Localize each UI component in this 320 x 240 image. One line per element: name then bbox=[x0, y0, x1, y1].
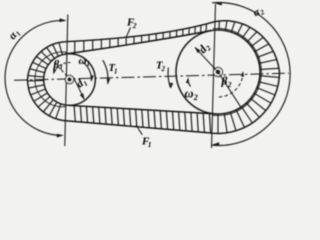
svg-text:β: β bbox=[221, 76, 228, 88]
label alpha2 bbox=[252, 4, 267, 19]
belt wrap left outer edge bbox=[28, 42, 66, 121]
belt bottom span bbox=[68, 105, 216, 114]
label beta2 bbox=[221, 76, 232, 90]
node beta1 angle bbox=[52, 60, 68, 77]
node T1 arrow bbox=[103, 60, 108, 83]
svg-text:ω: ω bbox=[185, 87, 194, 101]
belt left wrap hatching bbox=[59, 43, 63, 55]
label F2 bbox=[126, 17, 137, 31]
pulley 2 bbox=[176, 30, 260, 114]
node right vertical line bbox=[212, 4, 216, 148]
belt drive diagram bbox=[0, 0, 300, 151]
svg-text:1: 1 bbox=[148, 140, 152, 149]
label T1 bbox=[109, 63, 118, 76]
belt top span bbox=[66, 22, 212, 41]
wire bbox=[14, 73, 289, 80]
belt inner surface on pulley 2 bbox=[212, 28, 261, 115]
svg-text:1: 1 bbox=[59, 64, 63, 72]
node beta2 angle bbox=[218, 72, 241, 107]
svg-text:ω: ω bbox=[79, 55, 87, 67]
node F1 leader bbox=[136, 125, 142, 135]
svg-text:2: 2 bbox=[193, 93, 198, 102]
svg-text:2: 2 bbox=[132, 21, 137, 30]
belt bottom span hatching bbox=[74, 106, 75, 122]
hub 1 bbox=[65, 75, 73, 83]
svg-text:2: 2 bbox=[227, 80, 232, 89]
label d1 bbox=[74, 75, 89, 91]
pulley 1 bbox=[44, 54, 96, 106]
label alpha1 bbox=[6, 27, 22, 43]
belt right wrap hatching bbox=[218, 21, 220, 30]
belt top span hatching bbox=[74, 41, 76, 53]
node omega2 arrow bbox=[188, 79, 191, 87]
node omega1 arrow bbox=[83, 62, 91, 81]
label T2 bbox=[156, 61, 166, 74]
node T2 arrow bbox=[168, 68, 170, 88]
svg-text:1: 1 bbox=[87, 60, 91, 68]
hub 2 bbox=[213, 67, 222, 76]
svg-text:2: 2 bbox=[161, 65, 166, 73]
node d2 diameter bbox=[195, 48, 218, 72]
belt wrap right outer edge bbox=[209, 21, 279, 134]
node alpha1 arc bbox=[5, 20, 65, 135]
label beta1 bbox=[53, 59, 63, 72]
label F1 bbox=[141, 136, 151, 150]
label omega2 bbox=[185, 87, 198, 103]
label omega1 bbox=[79, 55, 91, 68]
node F2 leader bbox=[126, 28, 130, 37]
node alpha2 arc bbox=[212, 2, 290, 145]
node left vertical line bbox=[65, 15, 68, 147]
node d1 diameter bbox=[74, 78, 85, 99]
belt inner surface on pulley 1 bbox=[35, 52, 67, 107]
svg-text:1: 1 bbox=[114, 68, 118, 76]
label d2 bbox=[197, 41, 213, 57]
